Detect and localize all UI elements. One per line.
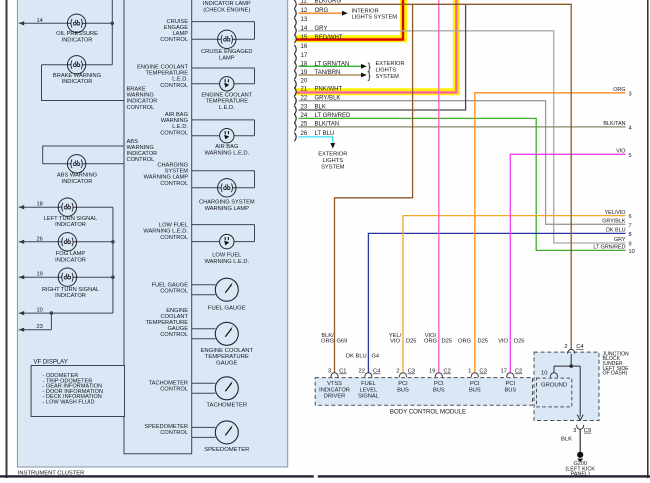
connector pin 21 instrument cluster bbox=[294, 87, 296, 96]
svg-text:FUEL GAUGE: FUEL GAUGE bbox=[152, 283, 189, 289]
highlight band RED/WHT circuit bbox=[296, 0, 404, 39]
wire BLK/ORG branch to BCM VTSS pin bbox=[335, 4, 413, 373]
lamp low fuel warning led bbox=[220, 234, 234, 248]
svg-text:GRY/BLK: GRY/BLK bbox=[315, 95, 341, 101]
svg-text:BRAKE WARNING: BRAKE WARNING bbox=[53, 73, 101, 79]
svg-text:24: 24 bbox=[301, 113, 308, 119]
instrument cluster internal column bbox=[124, 0, 192, 454]
svg-text:C2: C2 bbox=[443, 369, 450, 375]
svg-text:PCI: PCI bbox=[398, 381, 408, 387]
wire pin10 bbox=[19, 311, 24, 315]
svg-text:10: 10 bbox=[37, 308, 43, 314]
svg-text:18: 18 bbox=[37, 202, 43, 208]
svg-text:CONTROL: CONTROL bbox=[160, 387, 188, 393]
wire 21 PNK/WHT bbox=[296, 0, 456, 92]
lamp abs warning indicator bbox=[43, 163, 124, 165]
svg-text:VIO: VIO bbox=[498, 338, 508, 344]
svg-text:C3: C3 bbox=[408, 369, 415, 375]
svg-text:YEL/VIO: YEL/VIO bbox=[605, 210, 626, 216]
svg-text:BODY CONTROL MODULE: BODY CONTROL MODULE bbox=[390, 408, 466, 415]
wire VIO/ORG pci bus from top bbox=[438, 0, 440, 373]
svg-text:SIGNAL: SIGNAL bbox=[358, 394, 379, 400]
instrument cluster box bbox=[17, 0, 287, 467]
junction pin 10 bbox=[550, 373, 557, 377]
svg-text:9: 9 bbox=[629, 242, 632, 248]
svg-text:ENGINE COOLANT: ENGINE COOLANT bbox=[137, 65, 188, 71]
svg-text:CONTROL: CONTROL bbox=[160, 289, 188, 295]
svg-text:PCI: PCI bbox=[434, 381, 444, 387]
svg-text:SYSTEM: SYSTEM bbox=[376, 74, 400, 80]
svg-text:15: 15 bbox=[301, 35, 308, 41]
svg-text:14: 14 bbox=[301, 26, 308, 32]
svg-text:SPEEDOMETER: SPEEDOMETER bbox=[144, 424, 188, 430]
svg-text:3: 3 bbox=[629, 91, 632, 97]
svg-text:C3: C3 bbox=[479, 369, 486, 375]
wire 23 BLK bbox=[299, 4, 466, 110]
connector pin 12 instrument cluster bbox=[294, 9, 296, 18]
svg-text:3: 3 bbox=[328, 369, 331, 375]
svg-text:20: 20 bbox=[301, 79, 308, 85]
svg-text:D25: D25 bbox=[442, 338, 452, 344]
svg-text:16: 16 bbox=[301, 44, 308, 50]
svg-text:10: 10 bbox=[629, 249, 635, 255]
wire 22 GRY/BLK to pin 7 bbox=[299, 101, 626, 225]
svg-text:BUS: BUS bbox=[433, 387, 445, 393]
svg-text:6: 6 bbox=[629, 214, 632, 220]
svg-text:TACHOMETER: TACHOMETER bbox=[149, 381, 188, 387]
ground box bbox=[537, 378, 572, 407]
svg-text:C4: C4 bbox=[576, 344, 584, 350]
svg-text:LOW FUEL: LOW FUEL bbox=[212, 253, 241, 259]
svg-text:LIGHTS SYSTEM: LIGHTS SYSTEM bbox=[352, 15, 398, 21]
svg-text:CONTROL: CONTROL bbox=[160, 37, 188, 43]
wire pin18 left turn bbox=[19, 205, 24, 209]
svg-text:INDICATOR: INDICATOR bbox=[62, 79, 93, 85]
lamp air bag warning led bbox=[220, 129, 234, 143]
wire 24 LT GRN/RED to pin 10 bbox=[299, 118, 626, 250]
svg-text:TEMPERATURE: TEMPERATURE bbox=[145, 71, 188, 77]
gauge engine coolant temperature gauge bbox=[215, 322, 238, 345]
lamp charging system warning lamp bbox=[218, 179, 236, 197]
svg-text:G69: G69 bbox=[337, 338, 348, 344]
svg-text:TEMPERATURE: TEMPERATURE bbox=[205, 354, 249, 360]
wires tachometer bbox=[192, 382, 216, 384]
svg-text:INDICATOR: INDICATOR bbox=[127, 151, 158, 157]
connector pin 23 instrument cluster bbox=[294, 106, 296, 115]
wire turn signal common bus bbox=[112, 207, 114, 313]
body control module box bbox=[315, 378, 532, 406]
svg-text:TAN/BRN: TAN/BRN bbox=[315, 70, 341, 76]
svg-text:14: 14 bbox=[37, 18, 43, 24]
wire VIO pci bus to pin 5 bbox=[510, 154, 625, 372]
svg-text:LT GRN/RED: LT GRN/RED bbox=[315, 113, 351, 119]
svg-text:2: 2 bbox=[564, 344, 567, 350]
svg-text:3: 3 bbox=[573, 428, 576, 434]
svg-text:7: 7 bbox=[629, 223, 632, 229]
svg-text:INDICATOR: INDICATOR bbox=[55, 222, 86, 228]
svg-text:BUS: BUS bbox=[504, 387, 516, 393]
svg-text:10: 10 bbox=[541, 371, 547, 377]
svg-text:21: 21 bbox=[301, 87, 308, 93]
lamp fog lamp indicator bbox=[58, 233, 76, 251]
wire rung cruise engaged lamp bbox=[192, 21, 255, 23]
lamp left turn signal indicator bbox=[58, 198, 76, 216]
wire rung low fuel warning led bbox=[192, 224, 255, 226]
wire rung charging system warning lamp bbox=[192, 170, 255, 172]
wire rung engine coolant temperature led bbox=[192, 67, 255, 69]
lamp right turn signal indicator bbox=[58, 268, 76, 286]
wire 26 LT BLU bbox=[299, 137, 333, 143]
svg-text:PANEL): PANEL) bbox=[570, 472, 590, 478]
svg-text:VTSS: VTSS bbox=[327, 381, 342, 387]
svg-text:BLK: BLK bbox=[561, 437, 572, 443]
connector pin 20 instrument cluster bbox=[294, 80, 296, 89]
svg-text:GRY/BLK: GRY/BLK bbox=[602, 219, 626, 225]
wire pin26 fog lamp bbox=[19, 240, 24, 244]
connector pin 22 instrument cluster bbox=[294, 96, 296, 105]
svg-text:WARNING: WARNING bbox=[127, 93, 154, 99]
svg-text:CONTROL: CONTROL bbox=[127, 157, 155, 163]
svg-text:LT GRN/RED: LT GRN/RED bbox=[593, 245, 625, 251]
svg-text:LAMP: LAMP bbox=[219, 55, 235, 61]
svg-text:BUS: BUS bbox=[397, 387, 409, 393]
svg-text:INDICATOR: INDICATOR bbox=[55, 257, 86, 263]
svg-text:BLK: BLK bbox=[315, 105, 326, 111]
svg-text:5: 5 bbox=[629, 153, 632, 159]
lamp brake warning indicator bbox=[42, 64, 113, 66]
BCM pins bbox=[331, 373, 338, 377]
svg-text:ENGINE COOLANT: ENGINE COOLANT bbox=[201, 93, 252, 99]
ground G200 bbox=[577, 452, 583, 458]
svg-text:4: 4 bbox=[629, 126, 632, 132]
svg-text:13: 13 bbox=[301, 17, 308, 23]
wire pin14 to oil pressure indicator bbox=[19, 21, 24, 25]
lamp engine coolant temperature led bbox=[220, 77, 234, 91]
svg-text:CONTROL: CONTROL bbox=[127, 105, 155, 111]
connector pin 26 instrument cluster bbox=[294, 133, 296, 142]
svg-text:ORG: ORG bbox=[613, 87, 625, 93]
svg-text:CHARGING SYSTEM: CHARGING SYSTEM bbox=[199, 200, 255, 206]
wire rung air bag warning led bbox=[192, 119, 255, 121]
drawing frame right border bbox=[647, 0, 649, 478]
drawing frame left border bbox=[6, 0, 8, 478]
highlight band PNK/WHT circuit bbox=[296, 0, 456, 92]
wire 12 ORG bbox=[299, 12, 343, 14]
svg-text:ABS WARNING: ABS WARNING bbox=[57, 173, 97, 179]
svg-text:22: 22 bbox=[301, 95, 308, 101]
svg-text:RED/WHT: RED/WHT bbox=[315, 35, 343, 41]
svg-text:8: 8 bbox=[629, 232, 632, 238]
svg-text:PCI: PCI bbox=[506, 381, 516, 387]
svg-text:12: 12 bbox=[301, 8, 308, 14]
svg-text:DK BLU: DK BLU bbox=[346, 354, 367, 360]
svg-text:ORG: ORG bbox=[424, 338, 437, 344]
svg-text:C4: C4 bbox=[373, 369, 381, 375]
svg-text:CONTROL: CONTROL bbox=[160, 235, 188, 241]
svg-text:17: 17 bbox=[500, 369, 506, 375]
wires fuel gauge bbox=[192, 284, 216, 286]
gauge speedometer bbox=[215, 421, 238, 444]
svg-text:INDICATOR: INDICATOR bbox=[62, 179, 93, 185]
svg-text:LEFT TURN SIGNAL: LEFT TURN SIGNAL bbox=[44, 216, 98, 222]
svg-text:L.E.D.: L.E.D. bbox=[219, 105, 235, 111]
svg-text:VIO: VIO bbox=[616, 149, 625, 155]
svg-text:GRY: GRY bbox=[614, 237, 626, 243]
svg-text:OIL PRESSURE: OIL PRESSURE bbox=[56, 31, 98, 37]
wire pin23 bbox=[19, 328, 24, 332]
svg-text:25: 25 bbox=[301, 121, 308, 127]
connector pin 11 instrument cluster bbox=[294, 0, 296, 9]
svg-text:D25: D25 bbox=[478, 338, 488, 344]
svg-text:ORG: ORG bbox=[321, 338, 334, 344]
svg-text:26: 26 bbox=[37, 236, 43, 242]
svg-text:19: 19 bbox=[301, 70, 308, 76]
svg-text:INDICATOR: INDICATOR bbox=[319, 387, 350, 393]
svg-text:VF DISPLAY: VF DISPLAY bbox=[34, 360, 68, 366]
svg-text:OF DASH): OF DASH) bbox=[603, 371, 628, 377]
svg-text:C9: C9 bbox=[584, 428, 591, 434]
svg-text:DRIVER: DRIVER bbox=[324, 394, 346, 400]
svg-text:SYSTEM: SYSTEM bbox=[165, 169, 189, 175]
connector pin 15 instrument cluster bbox=[294, 34, 296, 43]
svg-text:LIGHTS: LIGHTS bbox=[323, 158, 344, 164]
wire 25 BLK/TAN to pin 4 bbox=[299, 126, 626, 128]
junction pin 3 C9 bbox=[577, 425, 584, 429]
svg-text:BRAKE: BRAKE bbox=[127, 87, 146, 93]
svg-text:PCI: PCI bbox=[470, 381, 480, 387]
svg-text:LOW FUEL: LOW FUEL bbox=[159, 222, 188, 228]
svg-text:SYSTEM: SYSTEM bbox=[321, 164, 345, 170]
svg-text:INDICATOR: INDICATOR bbox=[55, 293, 86, 299]
svg-text:CONTROL: CONTROL bbox=[160, 130, 188, 136]
svg-text:GAUGE: GAUGE bbox=[216, 360, 237, 366]
wire YEL/VIO pci bus to pin 6 bbox=[403, 216, 626, 373]
junction internal ground wiring bbox=[570, 354, 572, 366]
svg-text:INDICATOR: INDICATOR bbox=[127, 99, 158, 105]
connector pin 19 instrument cluster bbox=[294, 71, 296, 80]
lamp oil pressure indicator bbox=[67, 14, 85, 32]
wire BLK to ground bbox=[579, 429, 581, 452]
svg-text:26: 26 bbox=[301, 131, 308, 137]
svg-text:FOG LAMP: FOG LAMP bbox=[56, 251, 86, 257]
svg-text:WARNING L.E.D.: WARNING L.E.D. bbox=[204, 150, 249, 156]
wire 15 RED/WHT bbox=[296, 0, 403, 40]
wire pin19 right turn bbox=[19, 275, 24, 279]
wire 11 BLK/ORG ground bus bbox=[299, 4, 572, 349]
svg-text:WARNING: WARNING bbox=[127, 145, 154, 151]
svg-text:CONTROL: CONTROL bbox=[160, 83, 188, 89]
VF display box bbox=[31, 366, 124, 417]
connector pin 18 instrument cluster bbox=[294, 62, 296, 71]
svg-text:G4: G4 bbox=[372, 354, 380, 360]
svg-text:- LOW WASH FLUID: - LOW WASH FLUID bbox=[43, 400, 95, 406]
svg-text:GRY: GRY bbox=[315, 26, 328, 32]
svg-text:ORG: ORG bbox=[315, 8, 329, 14]
svg-text:INDICATOR LAMP: INDICATOR LAMP bbox=[203, 1, 251, 7]
connector pin 24 instrument cluster bbox=[294, 114, 296, 123]
svg-text:BLK/TAN: BLK/TAN bbox=[315, 121, 340, 127]
connector pin 13 instrument cluster bbox=[294, 18, 296, 27]
svg-text:19: 19 bbox=[429, 369, 435, 375]
svg-text:CONTROL: CONTROL bbox=[160, 430, 188, 436]
svg-text:WARNING LAMP: WARNING LAMP bbox=[205, 206, 250, 212]
svg-text:AIR BAG: AIR BAG bbox=[165, 112, 188, 118]
svg-text:C1: C1 bbox=[339, 369, 346, 375]
svg-text:DK BLU: DK BLU bbox=[606, 228, 626, 234]
svg-text:WARNING: WARNING bbox=[161, 118, 188, 124]
svg-text:RIGHT TURN SIGNAL: RIGHT TURN SIGNAL bbox=[42, 287, 99, 293]
svg-text:TACHOMETER: TACHOMETER bbox=[206, 403, 247, 409]
svg-text:L.E.D.: L.E.D. bbox=[172, 124, 188, 130]
svg-text:C2: C2 bbox=[515, 369, 522, 375]
svg-text:WARNING LAMP: WARNING LAMP bbox=[144, 175, 189, 181]
wire 14 GRY to pin 9 bbox=[299, 31, 626, 243]
svg-text:1: 1 bbox=[468, 369, 471, 375]
svg-text:17: 17 bbox=[301, 53, 308, 59]
wire DK BLU fuel level to pin 8 bbox=[368, 233, 625, 372]
junction pin 2 C4 bbox=[568, 349, 575, 353]
svg-text:INDICATOR: INDICATOR bbox=[62, 37, 93, 43]
svg-text:LIGHTS: LIGHTS bbox=[376, 68, 397, 74]
wires engine coolant temperature gauge bbox=[192, 328, 216, 330]
gauge tachometer bbox=[215, 377, 238, 400]
svg-text:EXTERIOR: EXTERIOR bbox=[318, 151, 347, 157]
junction block box bbox=[534, 352, 599, 420]
svg-text:WARNING L.E.D.: WARNING L.E.D. bbox=[204, 259, 249, 265]
wire brake warning return bbox=[42, 65, 125, 101]
gauge fuel gauge bbox=[215, 278, 238, 301]
wire 18 LT GRN/TAN bbox=[299, 65, 362, 67]
svg-text:CONTROL: CONTROL bbox=[160, 332, 188, 338]
connector pin 17 instrument cluster bbox=[294, 54, 296, 63]
svg-text:INTERIOR: INTERIOR bbox=[352, 8, 379, 14]
svg-text:D25: D25 bbox=[514, 338, 524, 344]
svg-text:PNK/WHT: PNK/WHT bbox=[315, 87, 343, 93]
wire ORG pci bus to pin 3 bbox=[475, 93, 626, 373]
svg-text:2: 2 bbox=[396, 369, 399, 375]
svg-text:CRUISE ENGAGED: CRUISE ENGAGED bbox=[201, 49, 253, 55]
svg-text:VIO: VIO bbox=[390, 338, 400, 344]
svg-text:FUEL: FUEL bbox=[361, 381, 376, 387]
svg-text:BLK/TAN: BLK/TAN bbox=[603, 121, 625, 127]
svg-text:AIR BAG: AIR BAG bbox=[215, 144, 238, 150]
svg-text:BUS: BUS bbox=[469, 387, 481, 393]
svg-text:INSTRUMENT CLUSTER: INSTRUMENT CLUSTER bbox=[18, 470, 85, 476]
wire abs top rail bbox=[43, 146, 124, 164]
svg-text:22: 22 bbox=[359, 369, 365, 375]
svg-text:CONTROL: CONTROL bbox=[160, 181, 188, 187]
wire 19 TAN/BRN bbox=[299, 74, 362, 76]
svg-text:18: 18 bbox=[301, 61, 308, 67]
svg-text:SPEEDOMETER: SPEEDOMETER bbox=[204, 447, 249, 453]
svg-text:ENGINE COOLANT: ENGINE COOLANT bbox=[200, 348, 253, 354]
svg-text:TEMPERATURE: TEMPERATURE bbox=[206, 99, 249, 105]
svg-text:L.E.D.: L.E.D. bbox=[172, 77, 188, 83]
lamp cruise engaged lamp bbox=[218, 30, 236, 48]
svg-text:FUEL GAUGE: FUEL GAUGE bbox=[208, 305, 246, 311]
svg-text:19: 19 bbox=[37, 272, 43, 278]
arrow to junction block bottom bbox=[577, 415, 583, 421]
svg-text:ORG: ORG bbox=[458, 338, 471, 344]
svg-text:ABS: ABS bbox=[127, 139, 139, 145]
svg-text:LT BLU: LT BLU bbox=[315, 131, 335, 137]
svg-text:LEVEL: LEVEL bbox=[360, 387, 378, 393]
connector pin 25 instrument cluster bbox=[294, 123, 296, 132]
drawing frame bottom border bbox=[0, 475, 314, 477]
node junction above brake lamp bbox=[111, 0, 113, 65]
svg-text:(CHECK ENGINE): (CHECK ENGINE) bbox=[203, 7, 250, 13]
wires speedometer bbox=[192, 426, 216, 428]
svg-text:23: 23 bbox=[301, 105, 308, 111]
svg-text:D25: D25 bbox=[406, 338, 416, 344]
connector pin 14 instrument cluster bbox=[294, 26, 296, 35]
svg-text:LT GRN/TAN: LT GRN/TAN bbox=[315, 61, 350, 67]
svg-text:23: 23 bbox=[37, 324, 43, 330]
svg-text:EXTERIOR: EXTERIOR bbox=[376, 61, 405, 67]
svg-text:GROUND: GROUND bbox=[541, 383, 567, 389]
connector pin 16 instrument cluster bbox=[294, 45, 296, 54]
svg-text:WARNING L.E.D.: WARNING L.E.D. bbox=[143, 229, 188, 235]
svg-text:CHARGING: CHARGING bbox=[157, 163, 188, 169]
